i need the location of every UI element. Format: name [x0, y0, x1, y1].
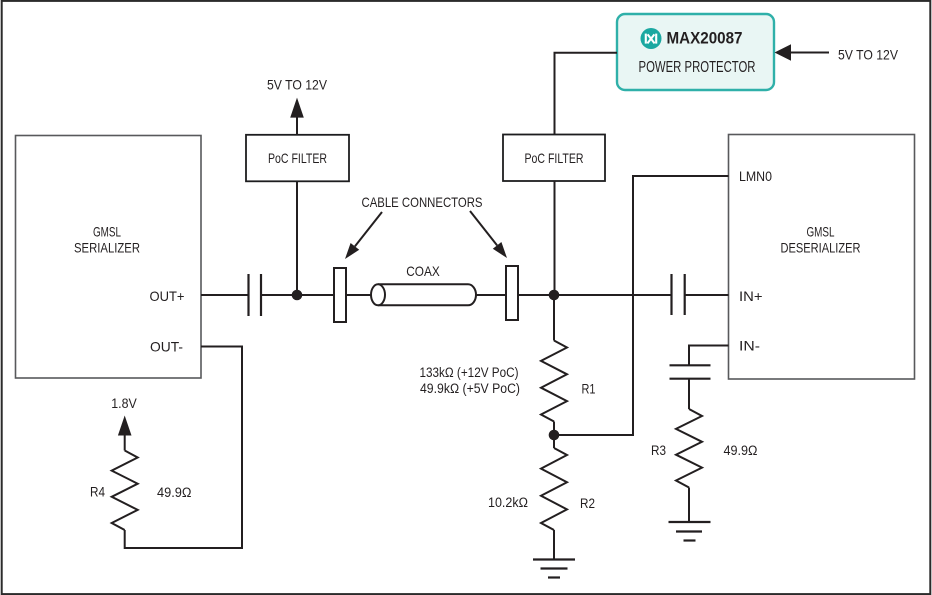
resistor R4 — [112, 451, 138, 531]
GMSL serializer U1 — [16, 136, 202, 379]
capacitor C3 (IN- termination) — [670, 365, 711, 378]
resistor R3 — [676, 409, 702, 487]
svg-text:PoC FILTER: PoC FILTER — [268, 150, 327, 166]
wire MAX20087 to right PoC filter — [555, 53, 618, 135]
PoC filter block (right) — [503, 135, 605, 182]
svg-text:R1: R1 — [582, 381, 596, 397]
capacitor C1 (series coupling, serializer side) — [249, 274, 262, 316]
svg-text:49.9Ω: 49.9Ω — [724, 443, 758, 458]
svg-text:LMN0: LMN0 — [739, 168, 772, 184]
arrow to right connector — [470, 211, 507, 258]
wire PoC filter to 5V-12V arrow — [296, 112, 298, 135]
resistor R1 — [541, 341, 567, 422]
ground (R2) — [533, 560, 575, 578]
wire R4 to 1.8V arrow — [124, 433, 126, 451]
svg-text:COAX: COAX — [406, 263, 440, 279]
wire coax to right connector — [475, 294, 506, 296]
wire C3 to R3 — [688, 379, 690, 409]
wire cap to left connector — [261, 294, 334, 296]
svg-text:DESERIALIZER: DESERIALIZER — [781, 240, 861, 256]
wire R3 to ground — [688, 488, 690, 522]
svg-text:CABLE CONNECTORS: CABLE CONNECTORS — [362, 194, 483, 210]
svg-text:R4: R4 — [90, 484, 105, 500]
svg-text:IN+: IN+ — [739, 288, 763, 304]
wire OUT+ to coupling cap — [201, 294, 249, 296]
svg-text:R3: R3 — [651, 442, 666, 458]
wire connector to coax — [346, 294, 373, 296]
svg-text:MAX20087: MAX20087 — [667, 29, 743, 48]
wire R2 to ground — [553, 530, 555, 559]
svg-text:5V TO 12V: 5V TO 12V — [267, 77, 328, 93]
cable connector (right) — [506, 266, 518, 320]
svg-text:1.8V: 1.8V — [111, 395, 137, 411]
wire right PoC filter to junction — [554, 181, 556, 295]
svg-text:49.9Ω: 49.9Ω — [157, 485, 192, 500]
capacitor C2 (series coupling, deserializer side) — [672, 274, 685, 315]
power arrow 1.8V — [118, 416, 132, 436]
node right junction — [549, 290, 560, 301]
ground (R3) — [669, 522, 711, 541]
node R1/R2 junction — [549, 430, 560, 441]
wire right connector to junction — [518, 294, 554, 296]
svg-text:OUT+: OUT+ — [150, 288, 185, 304]
svg-text:IN-: IN- — [739, 338, 760, 354]
power arrow 5V TO 12V (left) — [290, 98, 304, 118]
svg-text:GMSL: GMSL — [93, 224, 121, 240]
arrow to left connector — [345, 212, 382, 259]
cable connector (left) — [334, 268, 346, 322]
wire IN- to C3 — [689, 346, 729, 366]
MAX20087 power protector block — [617, 14, 774, 90]
wire OUT- loop to R4 — [125, 347, 242, 549]
wire junction to IN+ cap — [554, 294, 672, 296]
wire left junction to PoC filter — [296, 181, 298, 295]
svg-text:133kΩ (+12V PoC): 133kΩ (+12V PoC) — [420, 365, 519, 380]
wire junction to R1 — [553, 295, 555, 341]
svg-text:R2: R2 — [580, 495, 595, 511]
resistor R2 — [541, 448, 567, 530]
power arrow into MAX20087 (5V TO 12V) — [775, 44, 830, 61]
svg-text:GMSL: GMSL — [807, 224, 835, 240]
coax cable — [371, 284, 476, 305]
PoC filter block (left) — [246, 135, 349, 182]
wire cap to IN+ — [685, 294, 729, 296]
GMSL deserializer U2 — [729, 135, 915, 380]
wire node to R2 — [553, 435, 555, 448]
svg-text:10.2kΩ: 10.2kΩ — [488, 495, 528, 510]
node left junction — [292, 290, 303, 301]
svg-text:POWER PROTECTOR: POWER PROTECTOR — [639, 59, 756, 76]
svg-text:PoC FILTER: PoC FILTER — [525, 150, 584, 166]
svg-text:5V TO 12V: 5V TO 12V — [838, 47, 899, 63]
wire LMN0 net — [554, 176, 729, 435]
svg-text:OUT-: OUT- — [150, 339, 183, 355]
svg-text:49.9kΩ (+5V PoC): 49.9kΩ (+5V PoC) — [420, 381, 520, 396]
wire R1 to node — [553, 422, 555, 436]
svg-text:SERIALIZER: SERIALIZER — [74, 240, 140, 256]
